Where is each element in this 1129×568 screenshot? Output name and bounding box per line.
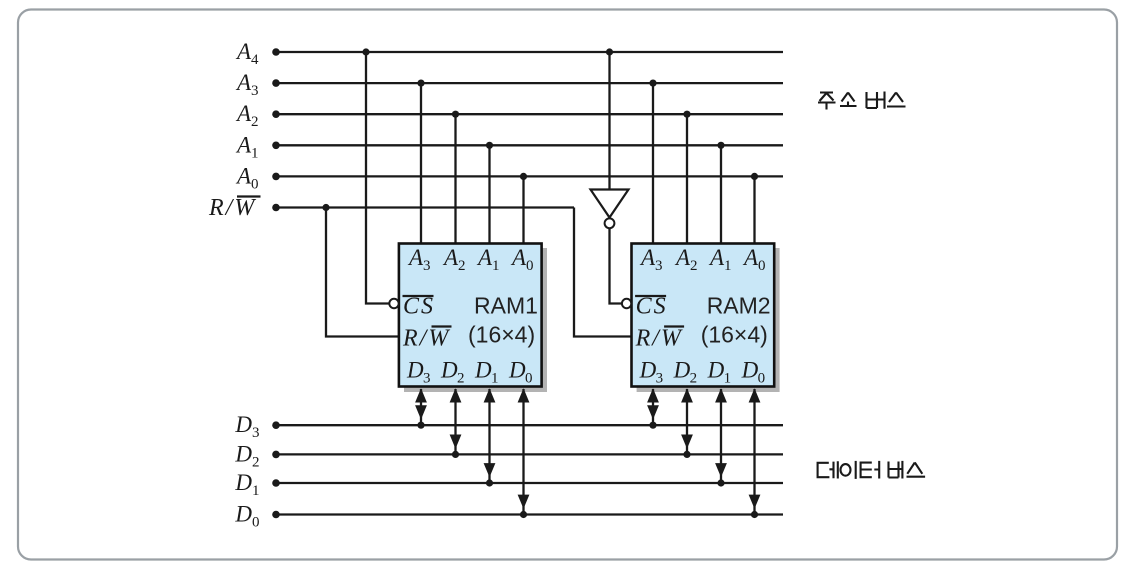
svg-text:3: 3 <box>251 83 259 99</box>
wire RAM2 pin A3 <box>652 83 654 244</box>
wire RAM1 pin A3 <box>420 83 422 244</box>
wire R/W to RAM1 <box>326 208 398 337</box>
svg-text:R/W: R/W <box>402 326 450 352</box>
junction A2-RAM1 <box>452 111 459 118</box>
data wire RAM2 D1 <box>720 389 722 483</box>
RAM2 U2 <box>632 244 780 393</box>
svg-text:1: 1 <box>492 258 500 274</box>
junction A0-RAM2 <box>751 173 758 180</box>
data wire RAM1 D0 <box>522 389 524 515</box>
svg-text:1: 1 <box>724 258 732 274</box>
RAM1 pin label CS <box>403 294 436 320</box>
svg-text:D: D <box>474 358 492 383</box>
data wire RAM1 D3 <box>420 389 422 425</box>
wire RAM2 pin A2 <box>686 114 688 244</box>
svg-text:A: A <box>235 163 252 188</box>
svg-text:A: A <box>708 245 725 270</box>
svg-text:0: 0 <box>758 371 766 387</box>
node R/W terminal <box>272 204 280 212</box>
svg-text:3: 3 <box>423 371 431 387</box>
RAM2 pin label CS <box>635 294 668 320</box>
svg-text:R/W: R/W <box>208 195 256 221</box>
svg-text:3: 3 <box>423 258 431 274</box>
svg-text:D: D <box>673 358 691 383</box>
junction R/W-RAM1 <box>322 204 329 211</box>
svg-text:D: D <box>741 358 759 383</box>
wire RAM1 pin A1 <box>488 145 490 244</box>
svg-text:2: 2 <box>458 258 466 274</box>
svg-text:RAM1: RAM1 <box>474 293 538 319</box>
RAM1 pin label R/W <box>402 326 452 352</box>
junction A4-RAM1 <box>362 48 369 55</box>
wire A4 to RAM1 CS <box>366 52 389 304</box>
node A2 terminal <box>272 110 280 118</box>
node D2 terminal <box>272 451 280 459</box>
svg-text:A: A <box>235 70 252 95</box>
wire D1 bus <box>276 482 783 484</box>
node A4 terminal <box>272 48 280 56</box>
RAM2 pin label R/W <box>635 326 685 352</box>
svg-text:A: A <box>639 245 656 270</box>
svg-text:2: 2 <box>690 258 698 274</box>
wire RAM2 pin A0 <box>753 176 755 244</box>
svg-text:0: 0 <box>252 515 260 531</box>
node A3 terminal <box>272 79 280 87</box>
svg-text:1: 1 <box>251 145 259 161</box>
svg-text:2: 2 <box>252 454 260 470</box>
label R/W <box>208 195 261 221</box>
wire A2 bus <box>276 113 783 115</box>
svg-text:4: 4 <box>251 52 259 68</box>
wire A0 bus <box>276 175 783 177</box>
svg-text:0: 0 <box>525 371 533 387</box>
svg-text:0: 0 <box>526 258 534 274</box>
node D3 terminal <box>272 421 280 429</box>
svg-text:3: 3 <box>656 371 664 387</box>
wire R/W to RAM2 <box>574 208 631 337</box>
data wire RAM2 D2 <box>686 389 688 454</box>
svg-text:2: 2 <box>251 114 259 130</box>
RAM2 CS bubble <box>622 299 631 308</box>
data wire RAM1 D1 <box>488 389 490 483</box>
svg-text:CS: CS <box>636 294 668 320</box>
svg-text:D: D <box>234 502 252 527</box>
svg-text:D: D <box>406 358 424 383</box>
svg-text:(16×4): (16×4) <box>468 322 535 348</box>
svg-text:D: D <box>707 358 725 383</box>
svg-text:A: A <box>510 245 527 270</box>
svg-text:A: A <box>742 245 759 270</box>
RAM1 U1 <box>399 244 547 393</box>
junction A0-RAM1 <box>520 173 527 180</box>
label address bus (Korean) <box>818 92 906 110</box>
RAM1 CS bubble <box>389 299 398 308</box>
svg-text:2: 2 <box>690 371 698 387</box>
svg-text:A: A <box>476 245 493 270</box>
data wire RAM1 D2 <box>454 389 456 454</box>
wire R/W bus <box>276 206 574 208</box>
svg-text:D: D <box>234 412 252 437</box>
svg-text:CS: CS <box>403 294 435 320</box>
svg-text:3: 3 <box>252 425 260 441</box>
node A1 terminal <box>272 142 280 150</box>
svg-text:A: A <box>235 101 252 126</box>
junction A4-inverter <box>606 48 613 55</box>
svg-text:3: 3 <box>655 258 663 274</box>
svg-text:A: A <box>235 39 252 64</box>
junction A1-RAM2 <box>717 142 724 149</box>
node D1 terminal <box>272 479 280 487</box>
svg-text:D: D <box>639 358 657 383</box>
svg-text:A: A <box>235 132 252 157</box>
svg-text:(16×4): (16×4) <box>701 322 768 348</box>
svg-text:0: 0 <box>251 176 259 192</box>
svg-text:1: 1 <box>491 371 499 387</box>
svg-text:A: A <box>674 245 691 270</box>
svg-text:D: D <box>440 358 458 383</box>
wire RAM2 pin A1 <box>720 145 722 244</box>
wire D2 bus <box>276 453 783 455</box>
wire A1 bus <box>276 144 783 146</box>
svg-text:0: 0 <box>758 258 766 274</box>
svg-text:D: D <box>234 441 252 466</box>
svg-text:1: 1 <box>724 371 732 387</box>
node A0 terminal <box>272 173 280 181</box>
wire D0 bus <box>276 513 783 515</box>
svg-text:D: D <box>234 470 252 495</box>
node D0 terminal <box>272 511 280 519</box>
svg-text:A: A <box>442 245 459 270</box>
svg-text:RAM2: RAM2 <box>707 293 771 319</box>
inverter U3 <box>591 190 629 229</box>
wire A4 to inverter <box>608 52 610 190</box>
svg-text:1: 1 <box>252 483 260 499</box>
data wire RAM2 D0 <box>753 389 755 515</box>
wire RAM1 pin A0 <box>522 176 524 244</box>
wire RAM1 pin A2 <box>454 114 456 244</box>
junction A1-RAM1 <box>486 142 493 149</box>
svg-text:2: 2 <box>457 371 465 387</box>
wire D3 bus <box>276 424 783 426</box>
wire inverter to RAM2 CS <box>610 229 622 304</box>
wire A4 bus <box>276 51 783 53</box>
data wire RAM2 D3 <box>652 389 654 425</box>
svg-text:D: D <box>508 358 526 383</box>
wire A3 bus <box>276 82 783 84</box>
junction A3-RAM1 <box>417 80 424 87</box>
junction A3-RAM2 <box>649 80 656 87</box>
label data bus (Korean) <box>818 461 926 479</box>
junction A2-RAM2 <box>683 111 690 118</box>
svg-text:A: A <box>407 245 424 270</box>
svg-text:R/W: R/W <box>635 326 683 352</box>
